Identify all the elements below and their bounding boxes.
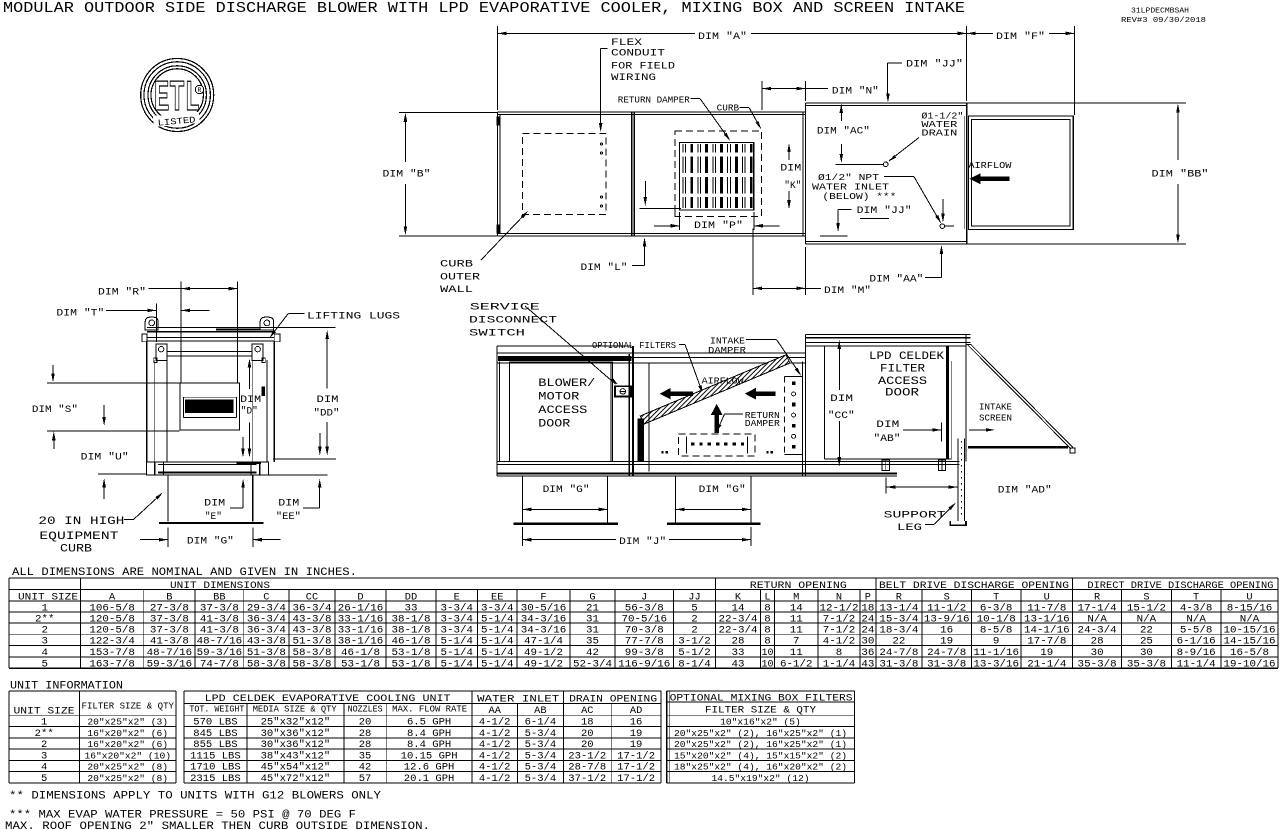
svg-text:17-1/2: 17-1/2	[617, 750, 655, 762]
svg-text:38"x43"x12": 38"x43"x12"	[261, 750, 331, 762]
svg-text:SERVICE: SERVICE	[470, 302, 540, 314]
svg-text:5-1/4: 5-1/4	[440, 636, 473, 648]
svg-text:DIM "G": DIM "G"	[543, 484, 590, 496]
svg-text:19: 19	[630, 740, 643, 751]
service disconnect switch label	[469, 302, 619, 386]
support leg	[950, 439, 966, 526]
20 in high equipment curb label	[38, 491, 164, 555]
svg-text:9: 9	[993, 636, 1000, 648]
svg-text:DOOR: DOOR	[538, 419, 570, 431]
svg-text:58-3/8: 58-3/8	[292, 658, 331, 670]
svg-text:20.1 GPH: 20.1 GPH	[404, 774, 455, 785]
svg-text:58-3/8: 58-3/8	[292, 647, 331, 659]
svg-text:DIM "L": DIM "L"	[581, 262, 628, 274]
svg-text:22-3/4: 22-3/4	[718, 624, 757, 636]
svg-text:1710 LBS: 1710 LBS	[190, 763, 241, 774]
svg-text:AB: AB	[534, 706, 546, 717]
svg-text:28: 28	[1091, 636, 1104, 648]
dim T	[56, 303, 209, 342]
svg-text:5-3/4: 5-3/4	[525, 728, 557, 740]
top view mixing box dashed curb square	[675, 131, 762, 217]
svg-text:45"x72"x12": 45"x72"x12"	[261, 773, 331, 785]
lifting lugs label	[268, 311, 400, 339]
svg-text:DIM "JJ": DIM "JJ"	[906, 59, 963, 71]
svg-text:24-3/4: 24-3/4	[1078, 624, 1117, 636]
svg-text:DIM: DIM	[278, 497, 299, 509]
svg-text:38-1/16: 38-1/16	[338, 636, 384, 648]
svg-text:20: 20	[359, 718, 372, 729]
svg-text:48-7/16: 48-7/16	[197, 636, 243, 648]
svg-text:74-7/8: 74-7/8	[200, 658, 239, 670]
svg-text:30: 30	[861, 636, 874, 648]
svg-text:3-3/4: 3-3/4	[440, 624, 473, 636]
svg-text:LPD CELDEK EVAPORATIVE COOLING: LPD CELDEK EVAPORATIVE COOLING UNIT	[205, 694, 451, 705]
svg-text:14.5"x19"x2" (12): 14.5"x19"x2" (12)	[711, 773, 809, 784]
svg-text:10"x16"x2" (5): 10"x16"x2" (5)	[720, 717, 801, 728]
svg-text:19: 19	[1040, 647, 1053, 659]
title text	[3, 1, 965, 17]
svg-text:49-1/2: 49-1/2	[524, 658, 563, 670]
top view intake screen box	[968, 116, 1073, 229]
svg-text:46-1/8: 46-1/8	[391, 636, 430, 648]
svg-text:DIM "B": DIM "B"	[383, 169, 431, 181]
svg-text:FILTER SIZE & QTY: FILTER SIZE & QTY	[705, 706, 816, 717]
svg-text:4-1/2: 4-1/2	[479, 717, 511, 729]
svg-text:DIM: DIM	[876, 419, 899, 431]
dim CC	[828, 340, 855, 466]
svg-text:10: 10	[762, 658, 774, 670]
svg-text:52-3/4: 52-3/4	[573, 658, 612, 670]
svg-text:3-1/2: 3-1/2	[678, 636, 711, 648]
svg-text:4-1/2: 4-1/2	[823, 636, 856, 648]
evap section roof	[806, 335, 971, 462]
dim G side left	[522, 484, 607, 511]
return damper label	[618, 94, 732, 141]
svg-text:43: 43	[731, 658, 744, 670]
service disconnect switch box	[615, 386, 631, 396]
dim B	[383, 112, 498, 236]
svg-text:53-1/8: 53-1/8	[391, 647, 430, 659]
svg-text:18-3/4: 18-3/4	[879, 624, 918, 636]
svg-text:28-7/8: 28-7/8	[568, 762, 606, 774]
svg-text:20"x25"x2" (3): 20"x25"x2" (3)	[87, 717, 168, 728]
top view evap cooler box	[803, 103, 967, 244]
unit information label	[10, 680, 123, 692]
svg-text:ALL DIMENSIONS ARE NOMINAL AND: ALL DIMENSIONS ARE NOMINAL AND GIVEN IN …	[12, 567, 357, 579]
front view top rails	[147, 328, 274, 341]
svg-text:21-1/4: 21-1/4	[1027, 658, 1066, 670]
svg-text:DISCONNECT: DISCONNECT	[469, 315, 557, 327]
svg-text:4-1/2: 4-1/2	[479, 739, 511, 751]
svg-text:19-10/16: 19-10/16	[1223, 658, 1275, 670]
dim P	[654, 212, 780, 232]
svg-text:CONDUIT: CONDUIT	[611, 48, 665, 60]
svg-text:20"x25"x2" (2), 16"x25"x2" (1): 20"x25"x2" (2), 16"x25"x2" (1)	[674, 739, 847, 750]
svg-text:2315 LBS: 2315 LBS	[190, 774, 241, 785]
svg-text:DIM "M": DIM "M"	[824, 285, 871, 297]
svg-text:8: 8	[836, 647, 843, 659]
svg-text:7-1/2: 7-1/2	[823, 624, 856, 636]
svg-text:LPD CELDEK: LPD CELDEK	[869, 351, 944, 363]
svg-text:DAMPER: DAMPER	[745, 418, 780, 429]
dim N	[762, 81, 879, 110]
svg-text:R: R	[198, 87, 202, 94]
svg-text:5-3/4: 5-3/4	[525, 739, 557, 751]
svg-text:17-1/2: 17-1/2	[617, 762, 655, 774]
svg-text:FILTER: FILTER	[880, 364, 925, 376]
svg-text:36: 36	[861, 647, 874, 659]
svg-text:MAX. FLOW RATE: MAX. FLOW RATE	[392, 705, 467, 715]
svg-text:35-3/8: 35-3/8	[1078, 658, 1117, 670]
svg-text:FOR FIELD: FOR FIELD	[611, 60, 675, 72]
svg-text:DIM: DIM	[317, 394, 339, 406]
svg-text:17-7/8: 17-7/8	[1027, 636, 1066, 648]
water drain callout	[836, 111, 964, 167]
svg-text:41-3/8: 41-3/8	[200, 624, 239, 636]
svg-text:5-1/4: 5-1/4	[481, 658, 513, 670]
front view base channel	[146, 461, 274, 475]
svg-text:8.4 GPH: 8.4 GPH	[407, 729, 451, 740]
svg-text:5-3/4: 5-3/4	[525, 762, 557, 774]
svg-text:23-1/2: 23-1/2	[568, 750, 606, 762]
svg-text:ACCESS: ACCESS	[538, 405, 587, 417]
svg-text:35: 35	[586, 636, 599, 648]
svg-text:LEG: LEG	[897, 522, 922, 534]
door latches	[882, 460, 946, 470]
svg-text:3: 3	[41, 751, 47, 762]
svg-text:4-1/2: 4-1/2	[479, 762, 511, 774]
curb outer wall label	[440, 210, 529, 296]
dim AC	[817, 104, 870, 163]
svg-text:DIM: DIM	[780, 163, 801, 175]
svg-text:57: 57	[359, 774, 372, 785]
svg-text:8: 8	[764, 636, 771, 648]
svg-text:42: 42	[586, 647, 599, 659]
lpd celdek filter access door	[824, 346, 951, 459]
top view return damper grill	[680, 142, 754, 210]
svg-text:99-3/8: 99-3/8	[625, 647, 664, 659]
svg-text:45"x54"x12": 45"x54"x12"	[261, 762, 331, 774]
svg-text:25: 25	[1140, 636, 1153, 648]
svg-text:5-1/2: 5-1/2	[678, 647, 711, 659]
svg-text:53-1/8: 53-1/8	[341, 658, 380, 670]
svg-text:17-1/2: 17-1/2	[617, 773, 655, 785]
svg-text:DIM: DIM	[240, 394, 261, 406]
unit dimensions table	[9, 578, 1278, 670]
svg-text:2: 2	[41, 740, 47, 751]
svg-text:1115 LBS: 1115 LBS	[190, 751, 241, 762]
side view pedestal middle	[667, 476, 761, 524]
side view pedestal left	[514, 476, 618, 524]
svg-text:51-3/8: 51-3/8	[247, 647, 286, 659]
return damper side label	[715, 410, 780, 433]
svg-text:20"x25"x2" (2), 16"x25"x2" (1): 20"x25"x2" (2), 16"x25"x2" (1)	[674, 728, 847, 739]
svg-text:DIM "AD": DIM "AD"	[998, 485, 1052, 497]
svg-text:8: 8	[764, 624, 771, 636]
dim K	[780, 143, 801, 209]
svg-text:CURB: CURB	[60, 544, 92, 556]
svg-text:8-5/8: 8-5/8	[980, 624, 1013, 636]
svg-text:5-3/4: 5-3/4	[525, 773, 557, 785]
svg-text:20: 20	[581, 729, 594, 740]
svg-text:18"x25"x2" (4), 16"x20"x2" (2): 18"x25"x2" (4), 16"x20"x2" (2)	[674, 762, 847, 773]
optional filters label	[592, 340, 704, 394]
svg-text:NOZZLES: NOZZLES	[348, 705, 383, 715]
svg-text:AIRFLOW: AIRFLOW	[702, 376, 744, 387]
svg-text:4-1/2: 4-1/2	[479, 750, 511, 762]
svg-text:24: 24	[861, 624, 874, 636]
svg-text:6-1/16: 6-1/16	[1177, 636, 1216, 648]
dim JJ upper	[886, 59, 963, 103]
front view lifting lug left	[145, 317, 158, 330]
dim G front	[140, 528, 281, 548]
svg-text:120-5/8: 120-5/8	[89, 624, 135, 636]
all dimensions note	[12, 567, 357, 579]
dim G side right	[676, 484, 751, 511]
svg-text:48-7/16: 48-7/16	[147, 647, 193, 659]
dim U	[81, 405, 147, 499]
svg-text:DIM "JJ": DIM "JJ"	[857, 205, 912, 217]
front view lifting lug right	[260, 317, 273, 330]
dim AB	[874, 419, 942, 445]
svg-text:SWITCH: SWITCH	[469, 328, 525, 340]
svg-text:DAMPER: DAMPER	[708, 345, 746, 356]
svg-text:MEDIA SIZE & QTY: MEDIA SIZE & QTY	[253, 705, 338, 715]
svg-text:35-3/8: 35-3/8	[1127, 658, 1166, 670]
svg-text:DIRECT DRIVE DISCHARGE OPENING: DIRECT DRIVE DISCHARGE OPENING	[1087, 581, 1273, 592]
support leg label	[884, 502, 957, 534]
svg-text:33-1/16: 33-1/16	[338, 624, 384, 636]
dim J	[522, 527, 751, 548]
svg-text:8.4 GPH: 8.4 GPH	[407, 740, 451, 751]
svg-text:5: 5	[41, 774, 47, 785]
svg-text:34-3/16: 34-3/16	[521, 624, 567, 636]
svg-text:116-9/16: 116-9/16	[618, 658, 670, 670]
svg-text:CURB: CURB	[440, 259, 473, 271]
footnote max evap pressure	[9, 810, 356, 822]
svg-text:BELT DRIVE DISCHARGE OPENING: BELT DRIVE DISCHARGE OPENING	[879, 581, 1069, 592]
svg-text:"E": "E"	[205, 511, 222, 523]
side view roof left sections	[497, 346, 806, 363]
svg-text:2: 2	[41, 624, 48, 636]
svg-text:22: 22	[892, 636, 905, 648]
svg-text:RETURN OPENING: RETURN OPENING	[750, 581, 847, 592]
svg-text:77-7/8: 77-7/8	[625, 636, 664, 648]
top view blower section box	[498, 112, 806, 236]
front view equipment curb	[159, 475, 264, 523]
dim F	[967, 26, 1075, 115]
svg-text:51-3/8: 51-3/8	[292, 636, 331, 648]
svg-text:DRAIN OPENING: DRAIN OPENING	[569, 694, 657, 705]
svg-text:10-15/16: 10-15/16	[1223, 624, 1275, 636]
svg-text:16-5/8: 16-5/8	[1230, 647, 1269, 659]
svg-text:2**: 2**	[35, 728, 54, 740]
svg-text:16"x20"x2" (6): 16"x20"x2" (6)	[87, 739, 168, 750]
svg-text:15"x20"x2" (4), 15"x15"x2" (2): 15"x20"x2" (4), 15"x15"x2" (2)	[674, 750, 847, 761]
footnote dimensions apply	[9, 791, 381, 803]
svg-text:OPTIONAL FILTERS: OPTIONAL FILTERS	[592, 340, 676, 351]
svg-text:5-3/4: 5-3/4	[525, 750, 557, 762]
dim AA	[869, 245, 943, 286]
svg-text:18: 18	[581, 718, 594, 729]
svg-text:8-1/4: 8-1/4	[678, 658, 711, 670]
svg-text:DIM "F": DIM "F"	[996, 31, 1045, 43]
intake damper label	[708, 336, 802, 377]
svg-text:122-3/4: 122-3/4	[89, 636, 135, 648]
svg-text:19: 19	[940, 636, 953, 648]
svg-text:10.15 GPH: 10.15 GPH	[401, 751, 458, 762]
airflow label top view	[968, 160, 1011, 184]
side view left wall	[497, 346, 500, 476]
svg-text:59-3/16: 59-3/16	[197, 647, 243, 659]
top view section divider	[632, 112, 634, 236]
svg-text:11: 11	[790, 624, 803, 636]
svg-text:28: 28	[359, 740, 372, 751]
svg-text:33: 33	[731, 647, 744, 659]
svg-text:*** MAX EVAP WATER PRESSURE =: *** MAX EVAP WATER PRESSURE = 50 PSI @ 7…	[9, 810, 356, 822]
dim E	[204, 479, 245, 523]
svg-text:59-3/16: 59-3/16	[147, 658, 193, 670]
svg-text:1: 1	[41, 718, 47, 729]
svg-text:13-3/16: 13-3/16	[973, 658, 1019, 670]
intake screen label	[969, 402, 1013, 432]
svg-text:DIM "P": DIM "P"	[694, 220, 743, 232]
svg-text:DIM "G": DIM "G"	[187, 536, 234, 548]
front view side tabs	[142, 334, 280, 342]
svg-text:845 LBS: 845 LBS	[193, 729, 237, 740]
svg-text:INTAKE: INTAKE	[979, 402, 1012, 413]
svg-text:28: 28	[359, 729, 372, 740]
svg-text:DIM "AA": DIM "AA"	[869, 274, 923, 286]
return damper side view	[662, 404, 773, 456]
svg-text:OUTER: OUTER	[440, 272, 481, 284]
svg-text:4-1/2: 4-1/2	[479, 728, 511, 740]
svg-text:DIM "A": DIM "A"	[698, 31, 747, 43]
flex conduit label	[599, 37, 675, 132]
svg-text:10: 10	[762, 647, 774, 659]
svg-text:22: 22	[1140, 624, 1153, 636]
top view blower box corner marks	[496, 117, 499, 234]
svg-text:30: 30	[1091, 647, 1104, 659]
svg-text:UNIT DIMENSIONS: UNIT DIMENSIONS	[170, 581, 270, 592]
top view right extension lines	[967, 103, 1186, 244]
svg-text:35: 35	[359, 751, 372, 762]
svg-text:6.5 GPH: 6.5 GPH	[407, 718, 451, 729]
svg-text:49-1/2: 49-1/2	[524, 647, 563, 659]
svg-text:31LPDECMBSAH: 31LPDECMBSAH	[1131, 8, 1189, 16]
svg-text:DRAIN: DRAIN	[921, 128, 957, 139]
return opening lower mark	[640, 181, 681, 217]
svg-text:16: 16	[940, 624, 953, 636]
svg-text:"CC": "CC"	[828, 410, 855, 422]
svg-text:19: 19	[630, 729, 643, 740]
svg-text:DIM "T": DIM "T"	[56, 308, 104, 320]
svg-text:DIM "U": DIM "U"	[81, 452, 129, 464]
svg-text:5: 5	[41, 658, 48, 670]
svg-text:7: 7	[793, 636, 800, 648]
svg-text:5-1/4: 5-1/4	[481, 636, 513, 648]
svg-text:DIM "N": DIM "N"	[832, 86, 879, 98]
svg-text:BLOWER/: BLOWER/	[538, 378, 595, 390]
front view inner lug brackets	[154, 344, 266, 363]
svg-text:ACCESS: ACCESS	[878, 376, 927, 388]
svg-text:11: 11	[790, 647, 803, 659]
svg-text:11-1/16: 11-1/16	[973, 647, 1019, 659]
svg-text:DIM "G": DIM "G"	[699, 484, 746, 496]
svg-text:DIM: DIM	[830, 393, 853, 405]
svg-text:"D": "D"	[241, 406, 258, 418]
svg-text:46-1/8: 46-1/8	[341, 647, 380, 659]
inlet locator arrow	[941, 199, 945, 223]
svg-text:30: 30	[1140, 647, 1153, 659]
top view curb outer wall dashed square	[522, 133, 606, 214]
svg-text:30"x36"x12": 30"x36"x12"	[261, 728, 331, 740]
svg-text:41-3/8: 41-3/8	[150, 636, 189, 648]
svg-text:47-1/4: 47-1/4	[524, 636, 563, 648]
svg-text:53-1/8: 53-1/8	[391, 658, 430, 670]
svg-text:"AB": "AB"	[874, 433, 901, 445]
dim D	[240, 359, 261, 458]
svg-text:16"x20"x2" (10): 16"x20"x2" (10)	[85, 750, 172, 761]
svg-text:EQUIPMENT: EQUIPMENT	[39, 531, 119, 543]
svg-text:AIRFLOW: AIRFLOW	[968, 160, 1011, 171]
svg-text:MOTOR: MOTOR	[538, 392, 579, 404]
ETL listed logo	[141, 59, 214, 132]
svg-text:5-5/8: 5-5/8	[1180, 624, 1213, 636]
svg-text:42: 42	[359, 763, 372, 774]
svg-text:43-3/8: 43-3/8	[292, 624, 331, 636]
dim S	[32, 365, 182, 449]
svg-text:24-7/8: 24-7/8	[879, 647, 918, 659]
svg-text:"EE": "EE"	[276, 511, 301, 523]
svg-text:12.6 GPH: 12.6 GPH	[404, 763, 455, 774]
svg-text:36-3/4: 36-3/4	[247, 624, 286, 636]
svg-text:AA: AA	[489, 706, 501, 717]
dim EE	[276, 479, 322, 523]
svg-text:43: 43	[861, 658, 874, 670]
svg-text:5-1/4: 5-1/4	[440, 647, 473, 659]
svg-text:70-3/8: 70-3/8	[625, 624, 664, 636]
dim DD	[273, 328, 340, 476]
svg-text:UNIT SIZE: UNIT SIZE	[18, 592, 78, 603]
svg-text:OPTIONAL MIXING BOX FILTERS: OPTIONAL MIXING BOX FILTERS	[670, 693, 853, 704]
blower motor access door	[509, 362, 612, 462]
svg-text:570 LBS: 570 LBS	[193, 718, 237, 729]
svg-text:AC: AC	[581, 706, 593, 717]
front view door handle	[261, 387, 265, 397]
svg-text:163-7/8: 163-7/8	[89, 658, 135, 670]
svg-text:14-1/16: 14-1/16	[1024, 624, 1070, 636]
svg-text:20"x25"x2" (8): 20"x25"x2" (8)	[87, 773, 168, 784]
svg-text:5-1/4: 5-1/4	[481, 624, 513, 636]
svg-text:1-1/4: 1-1/4	[823, 658, 856, 670]
front view blower discharge panel	[180, 383, 240, 430]
svg-text:REV#3 09/30/2018: REV#3 09/30/2018	[1121, 17, 1206, 25]
svg-text:RETURN DAMPER: RETURN DAMPER	[618, 94, 690, 105]
svg-text:37-1/2: 37-1/2	[568, 773, 606, 785]
svg-text:58-3/8: 58-3/8	[247, 658, 286, 670]
svg-text:DIM "J": DIM "J"	[619, 536, 666, 548]
svg-text:31: 31	[586, 624, 599, 636]
svg-text:38-1/8: 38-1/8	[391, 624, 430, 636]
svg-text:"DD": "DD"	[314, 407, 340, 419]
svg-text:2: 2	[691, 624, 698, 636]
svg-text:20 IN HIGH: 20 IN HIGH	[38, 516, 124, 528]
svg-text:6-1/2: 6-1/2	[780, 658, 813, 670]
svg-text:MODULAR OUTDOOR SIDE DISCHARGE: MODULAR OUTDOOR SIDE DISCHARGE BLOWER WI…	[3, 1, 965, 17]
svg-text:31-3/8: 31-3/8	[879, 658, 918, 670]
svg-text:FILTER SIZE & QTY: FILTER SIZE & QTY	[82, 701, 175, 711]
